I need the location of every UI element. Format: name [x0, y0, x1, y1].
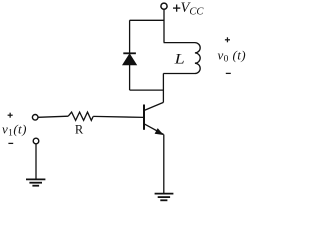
wire input to resistor: [38, 116, 68, 117]
inductor L coil: [163, 43, 200, 74]
wire bottom terminal to ground: [35, 144, 37, 179]
wire top rail to diode branch: [130, 19, 164, 21]
wire resistor to base: [93, 116, 144, 117]
label - (input): [8, 142, 13, 144]
label - (output): [226, 72, 231, 74]
diode D1 (cathode bar and filled anode triangle, pointing up): [123, 53, 136, 65]
svg-text:VCC: VCC: [181, 0, 205, 17]
resistor R zigzag: [68, 112, 93, 120]
label + (output): [225, 37, 230, 42]
wire diode bottom rail: [130, 89, 164, 91]
svg-text:v1(t): v1(t): [2, 122, 27, 139]
svg-text:v0 (t): v0 (t): [218, 48, 246, 65]
wire diode branch vertical: [129, 20, 131, 90]
node VCC terminal: [161, 3, 167, 9]
node input terminal top: [32, 115, 38, 121]
transistor Q1 collector lead: [144, 102, 163, 110]
transistor Q1 base bar: [143, 105, 145, 130]
label +VCC: [173, 5, 180, 12]
label + (input): [8, 113, 13, 118]
wire collector node vertical: [162, 74, 164, 103]
wire VCC vertical down: [163, 9, 165, 42]
wire emitter to ground: [163, 135, 165, 194]
ground (input): [26, 179, 45, 185]
node input terminal bottom: [33, 138, 39, 144]
ground (emitter): [155, 194, 174, 201]
transistor Q1 emitter lead with arrowhead: [144, 124, 163, 135]
svg-text:R: R: [75, 123, 84, 137]
svg-text:L: L: [173, 50, 184, 67]
